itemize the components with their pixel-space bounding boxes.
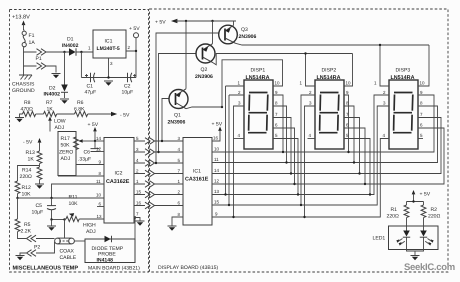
display DISP2 LN514RA (315, 68, 344, 150)
wire DISP1 pin5 riser (273, 139, 298, 195)
transistor Q2 2N3906 (195, 44, 215, 80)
7-segment digit DISP2 (319, 93, 339, 133)
svg-text:CA3162E: CA3162E (106, 179, 130, 185)
wire DISP1 pin8 riser (273, 106, 287, 163)
svg-text:CHASSIS: CHASSIS (12, 82, 35, 88)
wire ground to R8 (20, 114, 23, 118)
wire IC2 pin1 row (134, 183, 183, 185)
wire R6 to -5V arrow (88, 112, 130, 119)
ground under C5 (47, 220, 56, 231)
IC1 pin16 to +5V (212, 122, 223, 142)
wire DISP2 anode pin10 (344, 54, 353, 87)
svg-text:P1: P1 (36, 56, 42, 62)
node -5V rail (23, 138, 41, 151)
svg-text:SeekIC.com: SeekIC.com (404, 262, 455, 273)
node +5V rail display board (155, 19, 236, 26)
wire segment bus b (212, 106, 438, 163)
svg-text:15: 15 (214, 200, 220, 205)
wire R5 to P2 pin1 (18, 232, 27, 239)
wire IC2 pin4 row (134, 162, 183, 164)
wire IC2 pin11 branch (52, 184, 105, 198)
wire segment bus f (212, 106, 389, 205)
svg-text:- 5V: - 5V (120, 113, 130, 119)
svg-text:10: 10 (96, 193, 102, 198)
svg-text:Q2: Q2 (201, 67, 208, 73)
svg-text:10: 10 (420, 81, 426, 86)
node D1 anode junction (63, 51, 65, 53)
svg-text:MAIN BOARD (43B21): MAIN BOARD (43B21) (88, 266, 140, 272)
coax cable shield symbol (55, 238, 77, 261)
main board dashed border (10, 10, 149, 273)
wire coax to probe (74, 240, 85, 242)
svg-text:CA3161E: CA3161E (185, 177, 209, 183)
wire LED cathodes to ground (407, 237, 424, 255)
wire pin14 (95, 140, 104, 142)
svg-text:LED1: LED1 (373, 236, 386, 242)
svg-text:14: 14 (214, 168, 220, 173)
svg-text:+ 5V: + 5V (420, 192, 431, 198)
svg-text:ADJ: ADJ (86, 229, 96, 235)
resistor R17 element (74, 137, 79, 150)
wire DISP1 pin4 riser (234, 138, 245, 140)
display DISP3 LN514RA (389, 68, 418, 150)
svg-text:16: 16 (136, 201, 142, 206)
capacitor C6 .33uF (78, 141, 104, 163)
wire DISP2 anode drop pin1 (306, 54, 316, 87)
diode D2 IN4002 (44, 52, 69, 98)
wire segment bus d (212, 128, 444, 184)
wire P1 pin1 to D1 (46, 51, 66, 53)
wire R7 to R6 (57, 113, 75, 115)
wire Q3 base riser (156, 33, 219, 163)
connector arrow row4 (145, 170, 155, 177)
wire reg pin 2 to +5V (126, 38, 136, 78)
wire DISP2 pin4 stub (308, 138, 316, 140)
wire IC2 pin16 row (134, 205, 183, 207)
wire P2 pin1 to coax (36, 238, 55, 240)
node +5V to IC2 pin14 (88, 122, 99, 141)
svg-text:+ 5V: + 5V (212, 122, 223, 128)
svg-text:IC2: IC2 (115, 171, 123, 177)
DISP2 pin labels (300, 81, 352, 139)
wire Q3 collector to DISP3 (236, 43, 430, 45)
resistor R8 470ohm (21, 100, 36, 117)
ground reg pin 3 (104, 81, 113, 86)
node +5V output (129, 26, 140, 38)
ground under R14 (35, 180, 44, 189)
wire IC2 pin15 row (134, 194, 183, 196)
display board dashed border (150, 9, 449, 272)
svg-text:11: 11 (96, 179, 101, 184)
wire IC2 pin2 row (134, 173, 183, 175)
svg-text:R13: R13 (26, 150, 36, 156)
svg-text:16: 16 (213, 136, 219, 141)
svg-text:2N3906: 2N3906 (195, 74, 213, 80)
svg-text:10µF: 10µF (32, 210, 44, 216)
junction dots on buses (224, 151, 371, 218)
svg-text:.33µF: .33µF (78, 157, 91, 163)
svg-text:1A: 1A (29, 40, 36, 46)
svg-text:- 5V: - 5V (23, 140, 33, 146)
wire input node to IC2 pin10 (18, 197, 105, 199)
svg-text:R1: R1 (391, 207, 398, 213)
capacitor C1 47uF (85, 73, 97, 96)
svg-text:IC1: IC1 (105, 39, 113, 45)
svg-text:10K: 10K (22, 192, 32, 198)
svg-text:LOW: LOW (54, 119, 66, 125)
wire segment bus c (212, 118, 441, 174)
wire DISP3 anode drop pin1 (380, 45, 389, 86)
IC2 right pin labels (136, 136, 142, 217)
svg-text:R12: R12 (22, 185, 32, 191)
svg-text:CABLE: CABLE (60, 255, 77, 261)
wire R8 to R7 (36, 113, 44, 115)
wire fuse to P1 (24, 48, 37, 53)
transistor Q3 2N3906 (219, 25, 257, 44)
svg-text:50K: 50K (61, 143, 71, 149)
svg-text:R17: R17 (61, 136, 71, 142)
ground under P2 pin2 (16, 256, 25, 261)
connector arrow row1 (145, 138, 155, 145)
resistor R5 2.2K (15, 198, 31, 235)
svg-text:GROUND: GROUND (12, 88, 35, 94)
7-segment digit DISP1 (248, 93, 268, 133)
wire DISP2 pin6 riser (344, 128, 365, 184)
wire reg pin 3 down (108, 58, 110, 78)
wire Q2 emitter to rail (212, 21, 214, 44)
A/D converter IC2 CA3162E (104, 138, 134, 224)
svg-text:13: 13 (97, 214, 103, 219)
svg-text:LM340T-5: LM340T-5 (97, 46, 120, 52)
DISP3 pin labels (374, 81, 425, 139)
resistor R6 6.8K (74, 100, 88, 117)
BCD decoder IC1 CA3161E (183, 138, 212, 226)
svg-text:10: 10 (275, 81, 281, 86)
resistor R13 1K (26, 150, 42, 164)
IC1 right pin labels (213, 136, 220, 217)
svg-text:C5: C5 (36, 203, 43, 209)
wire R13-R14 junction to R12 (18, 166, 40, 182)
fuse F1 1A (22, 29, 35, 48)
ground under D2 (60, 99, 69, 104)
wire R11 to IC2 pin13 (79, 218, 104, 220)
connector arrow row6 (145, 191, 155, 198)
svg-text:R8: R8 (24, 100, 31, 106)
wire R17 to IC2 pin9 (76, 164, 104, 166)
wire segment bus g (212, 139, 389, 218)
wire coax shield to P2 pin2 (36, 242, 55, 253)
svg-text:+ 5V: + 5V (129, 26, 140, 32)
diode IN4148 on probe top (105, 236, 112, 243)
diode temp probe box (85, 239, 135, 264)
svg-text:10µF: 10µF (122, 90, 134, 96)
connector arrow row5 (145, 181, 155, 188)
wire Q1 emitter to rail (185, 21, 187, 89)
LED element left (396, 218, 410, 246)
resistor R1 220ohm (387, 205, 409, 220)
connector P1 pin2 (37, 63, 47, 70)
svg-text:P2: P2 (34, 245, 40, 251)
connector arrow row3 (145, 160, 155, 167)
capacitor C5 10uF (32, 198, 57, 220)
wire DISP2 pin8 riser (344, 106, 354, 163)
capacitor C2 10uF (107, 73, 136, 96)
display DISP1 LN514RA (244, 68, 273, 150)
wire probe to IC2 pin7 ground (134, 218, 136, 240)
wire R13 to R14 (39, 164, 41, 167)
wire LED supply rail (407, 202, 424, 206)
wire R17 box to IC2 pin8 (58, 175, 104, 177)
svg-text:47µF: 47µF (85, 90, 97, 96)
svg-text:10K: 10K (69, 201, 79, 207)
connector P2 pin1 (27, 235, 41, 250)
pot R7 LOW ADJ wiper (48, 117, 66, 132)
svg-text:R14: R14 (22, 168, 32, 174)
svg-text:+ 5V: + 5V (88, 122, 99, 128)
svg-text:470Ω: 470Ω (21, 107, 33, 113)
svg-text:MISCELLANEOUS TEMP: MISCELLANEOUS TEMP (13, 266, 79, 272)
svg-text:+13.8V: +13.8V (12, 15, 30, 21)
ground under LED1 (411, 256, 420, 261)
pot R17 50K ZERO ADJ box (58, 132, 76, 176)
svg-text:F1: F1 (29, 33, 35, 39)
wire Q2 collector to DISP2 (213, 54, 353, 65)
svg-text:11: 11 (214, 157, 219, 162)
wire Q3 emitter to rail (233, 21, 235, 25)
connector arrow row2 (145, 149, 155, 156)
connector P2 pin2 (27, 250, 37, 257)
svg-text:IN4148: IN4148 (97, 258, 114, 264)
diode D1 IN4002 (62, 37, 93, 78)
wire segment bus e (212, 95, 389, 195)
wire DISP1 pin3 riser (234, 106, 245, 217)
svg-text:COAX: COAX (60, 249, 75, 255)
svg-text:1K: 1K (47, 107, 54, 113)
resistor R2 220ohm (421, 205, 440, 220)
LED1 box (373, 226, 439, 250)
svg-text:DISP2: DISP2 (322, 68, 337, 74)
7-segment digit DISP3 (393, 93, 413, 133)
svg-text:ADJ: ADJ (55, 125, 65, 131)
resistor R7 1K (pot) (44, 100, 57, 117)
wire DISP2 pin2 riser (301, 95, 315, 205)
IC1 pin8 to ground (172, 217, 183, 226)
svg-text:14: 14 (96, 136, 102, 141)
wire DISP2 pin7 riser (344, 118, 360, 174)
svg-text:12: 12 (214, 179, 220, 184)
svg-text:2.2K: 2.2K (21, 229, 32, 235)
svg-text:15: 15 (136, 190, 142, 195)
svg-text:ADJ: ADJ (61, 156, 71, 162)
wire P2 pin2 to ground (20, 253, 26, 255)
svg-text:R5: R5 (24, 222, 31, 228)
ground under P1 pin2 (52, 74, 61, 79)
wire DISP3 pin5 stub (418, 138, 423, 140)
wire DISP1 anode loop (222, 60, 283, 107)
wire DISP1 pin6 riser (273, 128, 295, 184)
IC2 pin6 stub (97, 206, 104, 208)
resistor R14 220ohm (20, 167, 42, 180)
svg-text:DISPLAY BOARD (43B15): DISPLAY BOARD (43B15) (158, 265, 218, 271)
svg-text:IN4002: IN4002 (62, 43, 79, 49)
wire segment bus a (212, 95, 434, 152)
svg-text:2N3906: 2N3906 (239, 34, 257, 40)
svg-text:Q3: Q3 (241, 27, 248, 33)
resistor R12 10K (15, 181, 31, 198)
svg-text:D1: D1 (67, 37, 74, 43)
svg-text:220Ω: 220Ω (20, 174, 32, 180)
wire DISP1 pin7 riser (273, 118, 291, 174)
svg-text:DISP3: DISP3 (396, 68, 411, 74)
pot R17 wiper arrow (78, 139, 95, 143)
svg-text:Q1: Q1 (174, 113, 181, 119)
svg-text:IC1: IC1 (193, 169, 201, 175)
svg-text:ZERO: ZERO (59, 150, 73, 156)
svg-text:12: 12 (96, 147, 102, 152)
wire DISP3 anode pin10 (418, 45, 429, 86)
svg-text:13: 13 (214, 189, 220, 194)
svg-text:IN4002: IN4002 (44, 92, 61, 98)
svg-text:10: 10 (346, 81, 352, 86)
LED element right (420, 218, 434, 246)
IC2 left pin labels (96, 136, 102, 219)
svg-text:R11: R11 (69, 195, 78, 201)
regulator IC1 LM340T-5 (88, 30, 131, 66)
wire cap rail (81, 77, 136, 79)
svg-text:220Ω: 220Ω (428, 214, 440, 220)
wire Q2 base riser (159, 54, 197, 153)
transistor Q1 2N3906 (168, 89, 189, 126)
wire DISP2 pin5 riser (344, 139, 370, 195)
svg-text:R2: R2 (431, 207, 438, 213)
svg-text:220Ω: 220Ω (387, 214, 399, 220)
wire DISP2 pin3 riser (305, 106, 316, 217)
svg-text:C6: C6 (84, 150, 91, 156)
svg-text:1K: 1K (28, 157, 35, 163)
DISP1 pin labels (238, 81, 281, 139)
wire P1 pin2 branch (24, 52, 57, 73)
wire R12 to input node (17, 194, 19, 198)
wire Q1 base riser (162, 99, 169, 142)
IC2 pin7 to ground (134, 218, 140, 221)
wire C5 to R11 (52, 219, 65, 221)
wire IC2 pin5 row (134, 140, 183, 142)
svg-text:HIGH: HIGH (83, 223, 96, 229)
svg-text:2N3906: 2N3906 (168, 120, 186, 126)
node +5V LED supply (412, 190, 431, 202)
svg-text:R7: R7 (46, 100, 53, 106)
wire DISP2 pin9 riser (344, 95, 349, 152)
svg-text:DISP1: DISP1 (251, 68, 266, 74)
connector P1 pin1 (36, 49, 47, 62)
wire Q1 collector to DISP1 (186, 107, 222, 109)
node +13.8V (12, 15, 30, 31)
connector arrow row7 (145, 202, 155, 209)
svg-text:R6: R6 (77, 100, 84, 106)
IC1 left pin labels (178, 136, 181, 217)
wire DISP1 pin9 riser (273, 95, 283, 152)
resistor R11 10K (pot) (65, 195, 80, 239)
wire IC2 pin3 row (134, 151, 183, 153)
ground left of R8 (15, 118, 24, 123)
svg-text:10: 10 (214, 147, 220, 152)
chassis ground (12, 66, 35, 94)
svg-text:+ 5V: + 5V (155, 20, 166, 26)
wire DISP1 pin1 pin2 riser (226, 86, 245, 205)
